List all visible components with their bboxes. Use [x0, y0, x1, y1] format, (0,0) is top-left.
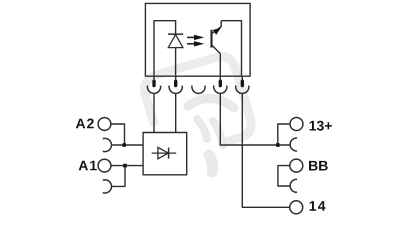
socket 5 (base terminal): [236, 86, 249, 94]
socket 4 (base terminal): [214, 86, 227, 94]
wire: A2 to left bus: [111, 124, 125, 145]
wire: A2 socket to rectifier box: [111, 144, 143, 146]
LED light emission arrows: [187, 35, 204, 47]
wire: housing to pin 2: [175, 76, 177, 80]
wire: LED cathode down to pin 2: [175, 48, 177, 77]
wire: 13+ bracket: [278, 124, 290, 145]
label A1: [79, 161, 97, 171]
wire: socket 1 to rectifier box: [153, 93, 155, 132]
wire: housing to pin 1: [153, 76, 155, 80]
wire: Q1 collector down to pin 4: [219, 54, 221, 77]
optocoupler U1 housing: [145, 3, 250, 76]
test socket below A1: [103, 180, 112, 193]
terminal circle 13+: [290, 118, 303, 131]
wire: socket 5 down and right to terminal 14: [242, 93, 290, 207]
LED D2 (emitter diode): [168, 34, 183, 47]
wire: BB bracket: [278, 166, 290, 186]
wire: housing to pin 5: [241, 76, 243, 80]
junction dot A2 bus: [122, 143, 126, 147]
wire: pin 1 to LED anode bracket: [154, 21, 176, 76]
pin 1 of plug-in module: [152, 80, 155, 88]
phototransistor Q1: [212, 21, 222, 54]
label 14: [310, 201, 326, 211]
wire: housing to pin 4: [219, 76, 221, 80]
terminal circle 14: [290, 201, 303, 214]
wire: socket 2 to rectifier box: [175, 93, 177, 132]
terminal circle A2: [98, 118, 111, 131]
test socket below BB: [290, 179, 297, 192]
label A2: [76, 119, 94, 129]
wire: socket 4 down and right to 13+ node: [220, 93, 277, 145]
pin 2 of plug-in module: [174, 80, 177, 88]
socket 2 (base terminal): [169, 86, 182, 94]
input rectifier box: [143, 133, 187, 175]
pin 5 of plug-in module: [241, 80, 244, 88]
wire: A1 socket riser: [111, 166, 125, 187]
pin 4 of plug-in module: [219, 80, 222, 88]
wire: A1 to rectifier box: [111, 165, 143, 167]
label BB: [309, 161, 328, 171]
test socket below A2: [103, 138, 112, 151]
diode D1 inside rectifier box: [152, 147, 177, 158]
junction dot 13+ node: [276, 143, 280, 147]
socket 3 (base terminal): [192, 86, 205, 94]
socket 1 (base terminal): [147, 86, 160, 94]
wire: Q1 emitter top run to pin 5: [221, 21, 241, 76]
test socket below 13+: [290, 138, 297, 151]
label 13+: [310, 121, 332, 131]
junction dot A1 bus: [123, 164, 127, 168]
terminal circle BB: [290, 159, 303, 172]
terminal circle A1: [98, 159, 111, 172]
